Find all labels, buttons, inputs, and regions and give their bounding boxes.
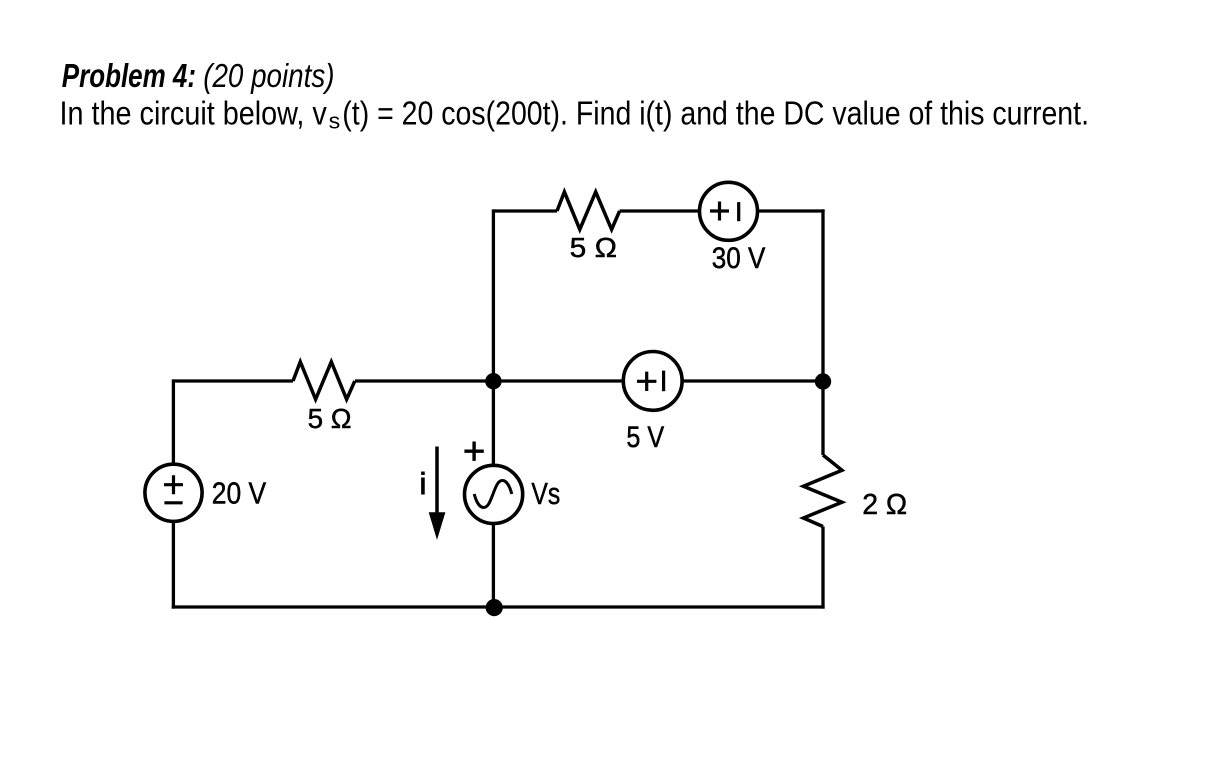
svg-text:Vs: Vs — [531, 476, 560, 511]
wire middle horizontal right segment — [682, 379, 823, 382]
svg-text:5 Ω: 5 Ω — [570, 232, 617, 263]
source Vs polarity plus above circle — [464, 442, 483, 461]
node junction dot bottom — [486, 599, 503, 616]
svg-text:5 V: 5 V — [626, 421, 664, 454]
source Vs sine wave — [474, 481, 512, 508]
svg-text:In the circuit below, v: In the circuit below, v — [60, 95, 328, 132]
source V3 minus bar — [662, 371, 665, 392]
current arrow i head — [429, 512, 446, 540]
resistor R1 top 5-ohm zigzag — [557, 192, 620, 230]
source V2 minus bar — [737, 202, 740, 221]
wire left vertical upper segment — [172, 379, 175, 464]
svg-text:Problem 4:: Problem 4: — [62, 57, 196, 94]
wire middle vertical lower segment — [492, 524, 495, 607]
svg-text:(t) = 20 cos(200t). Find i(t): (t) = 20 cos(200t). Find i(t) and the DC… — [342, 95, 1089, 132]
source Vs AC sine circle — [465, 465, 523, 523]
wire top horizontal right segment — [758, 209, 825, 212]
wire middle horizontal center segment — [355, 379, 623, 382]
wire left vertical lower segment — [172, 521, 175, 608]
svg-text:5 Ω: 5 Ω — [308, 403, 352, 434]
wire right vertical lower segment — [821, 527, 824, 609]
wire right vertical upper segment — [821, 209, 824, 455]
node junction dot middle — [485, 373, 501, 389]
node junction dot right — [815, 373, 831, 389]
svg-text:20 V: 20 V — [212, 477, 267, 511]
source V3 plus sign — [637, 372, 656, 391]
svg-text:i: i — [420, 466, 427, 501]
source V3 5V circle — [623, 352, 682, 411]
source V2 30V circle — [700, 182, 758, 240]
source V1 plus sign — [164, 475, 183, 494]
svg-text:(20 points): (20 points) — [203, 57, 334, 94]
source V1 minus sign — [164, 501, 182, 504]
resistor R2 middle 5-ohm zigzag — [293, 362, 355, 400]
svg-text:30 V: 30 V — [712, 242, 766, 275]
resistor R3 right 2-ohm vertical zigzag — [803, 455, 842, 527]
svg-text:s: s — [329, 108, 341, 133]
wire bottom horizontal — [172, 605, 825, 608]
source V2 plus sign — [710, 202, 729, 221]
wire top horizontal middle segment — [620, 209, 700, 212]
wire middle horizontal left segment — [173, 379, 293, 382]
current arrow i shaft — [435, 447, 439, 514]
wire middle vertical upper segment — [492, 209, 495, 465]
svg-text:2 Ω: 2 Ω — [862, 489, 907, 521]
wire top horizontal left segment — [493, 209, 557, 212]
source V1 20V DC circle — [145, 464, 202, 521]
